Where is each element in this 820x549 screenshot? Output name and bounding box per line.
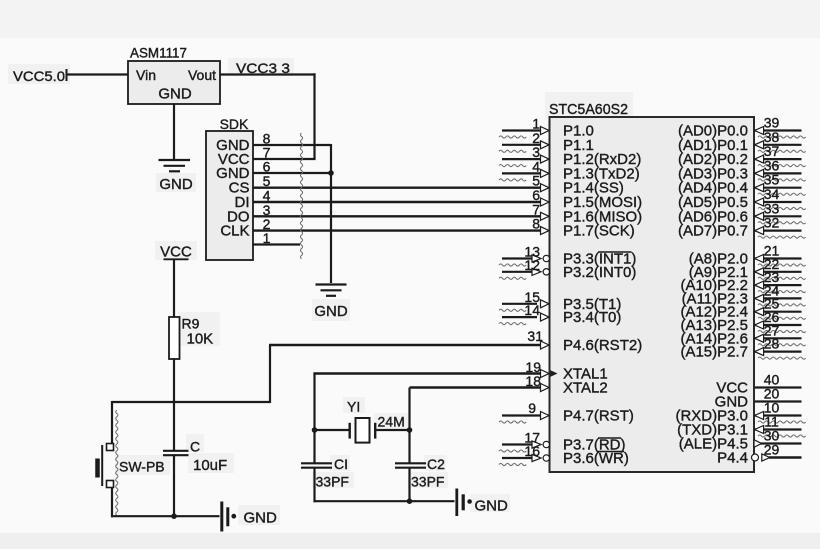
svg-text:C: C [190,439,200,455]
U2 pin 27 (A14)P2.6 wire/arrow/number [755,337,802,339]
capacitor C top wire [173,402,175,451]
connector J1 SDK body [206,131,253,260]
ground symbol below J1 [316,283,347,285]
U2 pin 4 P1.3(TxD2) wire/arrow/number [502,172,546,174]
U2 pin 23 (A10)P2.2 wire/arrow/number [755,284,802,286]
svg-text:10uF: 10uF [193,457,227,474]
wire J1 CS to MCU P1.4 [253,186,546,188]
crystal Y1 left plate [349,423,351,439]
svg-text:1: 1 [263,230,271,246]
svg-text:GND: GND [158,86,192,103]
U2 pin 8 P1.7(SCK) wire/arrow/number [541,227,550,235]
svg-text:29: 29 [764,442,780,458]
wire J1 pin8 GND stub [253,144,331,146]
wire down to SW-PB [111,401,113,444]
U2 pin 15 P3.5(T1) wire/arrow/number [502,303,537,305]
wire J1 pin6 GND stub [253,172,331,174]
junction crystal left [312,427,318,433]
junction J1 pin6 GND [328,170,334,176]
wire reset ground rail [111,515,220,517]
wire crystal left vertical [313,374,315,464]
wire J1 DI to MCU P1.5 [253,201,546,203]
crystal Y1 right plate [374,423,376,439]
U2 pin 40 VCC wire/number [755,386,802,388]
U2 pin 35 (AD4)P0.4 wire/arrow/number [755,187,802,189]
node VCC5.0 tick [66,69,68,81]
svg-text:18: 18 [525,373,541,389]
svg-text:R9: R9 [182,316,200,332]
wire R9 to reset node [173,359,175,403]
wire to MCU P4.6(RST2) pin31 [269,344,546,346]
U2 pin 9 P4.7(RST) wire/arrow/number [502,414,546,416]
wire J1 pin1 stub [253,243,300,245]
U2 pin 2 P1.1 wire/arrow/number [502,144,546,146]
svg-text:8: 8 [532,216,540,232]
svg-text:VCC3 3: VCC3 3 [236,60,290,76]
U2 pin 29 P4.4 wire/bubble/number [769,456,802,458]
switch SW-PB actuator bar [95,459,100,478]
U2 pin 17 P3.7(RD) wire/arrow/number [502,443,540,445]
svg-text:SDK: SDK [220,116,249,132]
U2 pin 6 P1.5(MOSI) wire/arrow/number [541,198,550,206]
svg-text:GND: GND [314,303,348,320]
svg-text:31: 31 [527,328,543,344]
svg-text:CLK: CLK [220,223,249,240]
U2 pin 34 (AD5)P0.5 wire/arrow/number [755,201,802,203]
MCU U2 STC5A60S2 body [550,117,755,472]
U2 pin 20 GND wire/number [755,400,802,402]
svg-text:33PF: 33PF [316,474,349,490]
svg-text:ASM1117: ASM1117 [130,46,187,61]
U2 pin 30 (ALE)P4.5 wire/arrow/number [758,442,802,444]
wire crystal right vertical [408,388,410,464]
U2 pin 26 (A13)P2.5 wire/arrow/number [755,324,802,326]
svg-text:P4.6(RST2): P4.6(RST2) [563,337,642,354]
svg-text:P1.7(SCK): P1.7(SCK) [563,223,635,240]
svg-text:33PF: 33PF [411,474,444,490]
regulator U1 ASM1117 body [128,61,220,104]
capacitor C1 plates [301,462,332,464]
U2 pin 11 (TXD)P3.1 wire/arrow/number [755,428,802,430]
junction reset ground [171,513,177,519]
squiggle along J1 pins [300,133,302,259]
svg-text:YI: YI [347,399,360,415]
svg-text:CI: CI [334,456,348,472]
wire SW-PB bottom down [111,488,113,518]
svg-text:(A15)P2.7: (A15)P2.7 [680,344,748,361]
switch SW-PB bottom terminal [107,481,114,488]
wire crystal branch left [315,429,349,431]
junction crystal right [407,427,413,433]
resistor R9 body [169,317,180,359]
capacitor C2 plates [395,462,426,464]
svg-text:P4.7(RST): P4.7(RST) [563,408,634,425]
svg-text:P3.2(INT0): P3.2(INT0) [563,264,636,281]
svg-text:Vout: Vout [188,67,216,83]
wire C1 bottom [313,468,315,503]
U2 pin 5 P1.4(SS) wire/arrow/number [541,184,550,192]
svg-text:GND: GND [159,176,193,193]
svg-text:P4.4: P4.4 [717,450,748,467]
wire crystal ground rail [315,500,455,502]
junction crystal ground [407,498,413,504]
U2 pin 39 (AD0)P0.0 wire/arrow/number [755,129,802,131]
svg-text:XTAL2: XTAL2 [563,380,608,397]
squiggle along SW-PB [116,410,118,515]
U2 pin 38 (AD1)P0.1 wire/arrow/number [755,144,802,146]
U2 pin 12 P3.2(INT0) wire/arrow/number [502,271,540,273]
svg-text:STC5A60S2: STC5A60S2 [549,102,628,118]
U2 pin 19 XTAL1 arrow/number [541,370,550,378]
svg-text:9: 9 [528,400,536,416]
wire J1 DO to MCU P1.6 [253,215,546,217]
wire XTAL1 to MCU pin19 [313,372,546,374]
wire U1 Vout to node VCC3 3 [220,73,316,75]
power ground symbol (crystal) [455,489,458,517]
U2 pin 10 (RXD)P3.0 wire/arrow/number [755,414,802,416]
wire C2 bottom [408,468,410,503]
svg-text:12: 12 [524,257,540,273]
wire VCC5.0 to U1 Vin [67,73,128,75]
U2 pin 33 (AD6)P0.6 wire/arrow/number [755,215,802,217]
U2 pin 22 (A9)P2.1 wire/arrow/number [755,271,802,273]
U2 pin 37 (AD2)P0.2 wire/arrow/number [755,158,802,160]
label background patches [545,92,633,117]
U2 pin 31 P4.6(RST2) arrow/number [541,341,550,349]
wire reset node horizontal [112,401,270,403]
U2 pin 14 P3.4(T0) wire/arrow/number [502,316,537,318]
svg-text:16: 16 [524,443,540,459]
svg-text:GND: GND [475,498,509,515]
svg-text:P3.4(T0): P3.4(T0) [563,309,621,326]
U2 pin 13 P3.3(INT1) wire/arrow/number [502,257,540,259]
svg-text:32: 32 [764,215,780,231]
U2 pin 36 (AD3)P0.3 wire/arrow/number [755,172,802,174]
U2 pin 1 P1.0 wire/arrow/number [502,129,546,131]
U2 pin 21 (A8)P2.0 wire/arrow/number [755,257,802,259]
svg-text:P3.6(WR): P3.6(WR) [563,450,629,467]
wire up to P4.6 row [269,345,271,403]
svg-text:VCC5.0: VCC5.0 [13,68,65,84]
wire J1 pin7 VCC stub [253,158,316,160]
ground symbol below U1 [159,159,191,161]
switch SW-PB pole bar [101,445,103,486]
power ground symbol (reset) [220,502,223,532]
wire crystal branch right [376,429,409,431]
crystal Y1 body [356,418,370,443]
svg-text:24M: 24M [378,414,405,430]
svg-text:6: 6 [263,159,271,175]
svg-text:10K: 10K [187,331,214,348]
wire J1 CLK to MCU P1.7 [253,229,546,231]
svg-text:SW-PB: SW-PB [119,459,165,475]
wire C bottom down [173,455,175,516]
wire VCC to R9 [173,260,175,317]
svg-text:Vin: Vin [136,67,156,83]
svg-text:14: 14 [524,302,540,318]
U2 pin 18 XTAL2 arrow/number [541,384,550,392]
svg-text:28: 28 [764,336,780,352]
wire J1 GND bus down [330,144,332,283]
svg-text:GND: GND [244,510,278,527]
wire XTAL2 to MCU pin18 [410,386,547,388]
U2 pin 28 (A15)P2.7 wire/arrow/number [755,351,802,353]
svg-text:(AD7)P0.7: (AD7)P0.7 [678,223,748,240]
switch SW-PB top terminal [107,444,114,451]
U2 pin 3 P1.2(RxD2) wire/arrow/number [502,158,546,160]
U2 pin 7 P1.6(MISO) wire/arrow/number [541,212,550,220]
node VCC tick [164,258,189,260]
svg-text:C2: C2 [427,456,445,472]
svg-text:VCC: VCC [160,244,192,261]
U2 pin 32 (AD7)P0.7 wire/arrow/number [755,230,802,232]
U2 pin 25 (A12)P2.4 wire/arrow/number [755,311,802,313]
wire VCC3.3 down to SDK pin7 [313,73,315,159]
capacitor C plates [163,450,189,452]
U2 pin 24 (A11)P2.3 wire/arrow/number [755,297,802,299]
wire U1 GND stem [173,104,175,159]
U2 pin 16 P3.6(WR) wire/arrow/number [502,457,540,459]
